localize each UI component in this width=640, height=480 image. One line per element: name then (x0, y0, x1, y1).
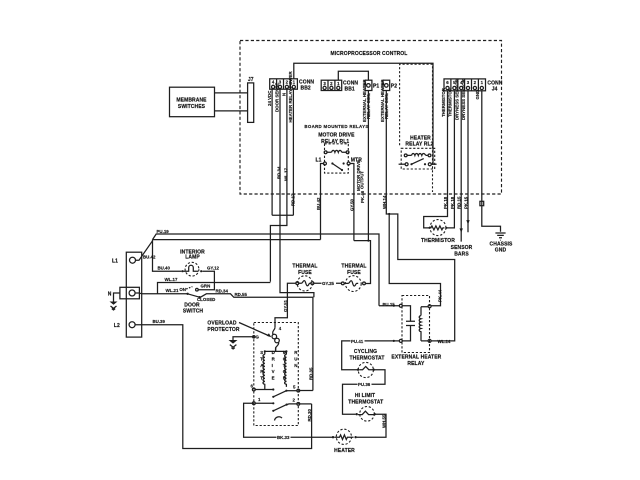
svg-text:RELAY COIL: RELAY COIL (384, 93, 389, 119)
wire door switch to motor run feed (RD.34 / RD.55) (200, 294, 313, 391)
svg-text:RD.55: RD.55 (235, 292, 248, 297)
motor winding motor-run (285, 351, 287, 387)
connector CONN BB2 (270, 79, 315, 92)
svg-text:PK.18: PK.18 (443, 196, 448, 209)
svg-text:DRYNESS SENSOR: DRYNESS SENSOR (461, 78, 466, 120)
label G (253, 336, 255, 338)
motor switch arm lower (272, 410, 274, 412)
ext relay bottom-left terminal (399, 339, 402, 342)
wire fuse1 to fuse2 (GY.25) (314, 282, 342, 284)
interior lamp (181, 262, 202, 276)
wire PU.41 cycling thermostat to ext relay (342, 341, 400, 370)
svg-text:CONN: CONN (487, 80, 502, 86)
hi limit thermostat (356, 407, 376, 422)
svg-text:L1: L1 (112, 259, 118, 265)
svg-text:MICROPROCESSOR CONTROL: MICROPROCESSOR CONTROL (331, 51, 408, 57)
svg-text:WL.17: WL.17 (284, 168, 289, 181)
terminal 5 row (286, 390, 297, 392)
centrifugal switch arc (275, 417, 283, 421)
wire hi-limit to heater (WH.55) (357, 414, 386, 437)
heater (332, 429, 357, 454)
overload protector arrow (239, 323, 270, 337)
svg-text:PK.44: PK.44 (437, 289, 442, 302)
membrane switches box (170, 87, 215, 117)
svg-text:DRYNESS SENSOR: DRYNESS SENSOR (455, 78, 460, 120)
wire J4 pin3 sensor bar right (467, 91, 469, 232)
wire BB2 pin1 to heater relay RL2 contact (294, 63, 433, 164)
ext relay bottom-right terminal (428, 339, 431, 342)
relay RL2 (399, 148, 437, 169)
svg-text:RD.35: RD.35 (309, 367, 314, 380)
svg-text:SWITCHES: SWITCHES (178, 104, 206, 110)
ext relay top-right terminal (428, 305, 431, 308)
cycling thermostat (357, 362, 375, 377)
thermistor (421, 220, 455, 244)
svg-text:OUTPUT: OUTPUT (359, 171, 364, 189)
svg-text:GY.50: GY.50 (349, 198, 354, 211)
ext relay contact plates (402, 306, 415, 341)
wire BB2 pin2 N down (WL.17 tap) (270, 89, 287, 282)
motor terminal 6 row (252, 388, 255, 391)
svg-text:BU.39: BU.39 (153, 319, 166, 324)
svg-text:GY.51: GY.51 (283, 299, 288, 312)
svg-text:DOOR SENSE: DOOR SENSE (274, 83, 279, 112)
svg-text:WL.17: WL.17 (165, 277, 178, 282)
svg-text:BU.42: BU.42 (316, 197, 321, 210)
svg-text:PK.18: PK.18 (450, 196, 455, 209)
motor winding start-drive (263, 351, 265, 389)
svg-text:LAMP: LAMP (185, 255, 200, 261)
wire membrane to J7 lower (215, 110, 248, 112)
wire BB2 pin3 door sense down (RD.34) (280, 89, 314, 297)
wire lamp to door switch GRN contact (GY.12) (198, 271, 214, 290)
bus joining pins (272, 214, 293, 216)
motor switch arm upper (272, 396, 274, 398)
motor terminal 1 row (252, 402, 255, 405)
wire BB2 pin1 heater relay power down to bus (292, 89, 294, 215)
wire BK.33 motor to heater (244, 403, 332, 437)
svg-text:RD.34: RD.34 (277, 166, 282, 179)
svg-text:RD.34: RD.34 (216, 289, 229, 294)
wire BB2 pin4 24VDC down to bus (271, 89, 273, 215)
svg-text:MEMBRANE: MEMBRANE (176, 98, 207, 104)
connector J7 (248, 77, 254, 123)
terminal 2 row (287, 403, 297, 406)
wire J4 pin5 to thermistor right (446, 91, 454, 228)
svg-text:PK.15: PK.15 (463, 196, 468, 209)
svg-text:BARS: BARS (454, 252, 469, 258)
svg-text:DOOR: DOOR (184, 302, 200, 308)
sensor bar right arrow (466, 220, 469, 224)
wire J4 pin1 to chassis ground (482, 91, 501, 232)
svg-text:PU.15: PU.15 (383, 302, 396, 307)
wire RL1 L1 contact down (BU.42) (321, 164, 324, 240)
wire L1 node down to lamp (BU.40) (153, 240, 182, 272)
thermal fuse 1 (296, 276, 314, 291)
terminal P1 (365, 80, 379, 90)
svg-text:N: N (108, 291, 112, 297)
svg-text:HI LIMIT: HI LIMIT (355, 393, 375, 399)
svg-text:PU.19: PU.19 (157, 229, 170, 234)
microprocessor control dashed box (240, 41, 502, 195)
wire P2 down to external heater relay (WH.14 / WL.14) (386, 91, 454, 341)
svg-text:FUSE: FUSE (347, 270, 361, 276)
connector CONN BB1 (321, 80, 358, 92)
thermal fuse 2 (341, 276, 365, 292)
connector CONN J4 (444, 79, 503, 93)
svg-text:P2: P2 (391, 84, 397, 90)
svg-text:THERMOSTAT: THERMOSTAT (348, 399, 383, 405)
motor winding bus (265, 350, 287, 352)
terminal P2 (383, 80, 397, 90)
motor overload protector (272, 327, 279, 351)
svg-text:THERMISTOR: THERMISTOR (448, 87, 453, 117)
svg-text:THERMAL: THERMAL (341, 264, 366, 270)
inner dashed enclosure (400, 64, 433, 192)
svg-text:HEATER RELAY POWER: HEATER RELAY POWER (288, 71, 293, 123)
svg-text:J4: J4 (492, 87, 498, 93)
wire cycling to hi-limit (PU.36) (343, 370, 386, 415)
svg-text:PROTECTOR: PROTECTOR (207, 327, 239, 333)
svg-text:N: N (281, 93, 286, 96)
svg-text:WL.21: WL.21 (166, 288, 179, 293)
svg-text:RD.15: RD.15 (457, 196, 462, 209)
svg-text:L1: L1 (316, 158, 322, 164)
svg-text:SENSOR: SENSOR (451, 245, 473, 251)
svg-text:L2: L2 (114, 323, 120, 329)
svg-text:J7: J7 (248, 77, 254, 83)
svg-text:RELAY: RELAY (407, 361, 425, 367)
wire L1 to PU.19 / BU.42 node (136, 241, 153, 260)
wire BU.42 horizontal to RL1 (153, 239, 321, 241)
svg-text:PK.46: PK.46 (360, 190, 365, 203)
svg-text:P1: P1 (373, 84, 379, 90)
svg-text:THERMISTOR: THERMISTOR (421, 238, 455, 244)
wire PU.19 horizontal to external heater relay (153, 234, 380, 306)
ext relay top-left terminal (399, 304, 402, 307)
svg-text:WL.14: WL.14 (438, 339, 451, 344)
wire membrane to J7 upper (215, 92, 248, 94)
svg-text:ON: ON (179, 287, 186, 292)
svg-text:WH.14: WH.14 (382, 195, 387, 209)
motor ground (229, 337, 254, 349)
wire fuse1 left to overload (GY.51) (275, 283, 296, 327)
svg-text:GND: GND (475, 90, 480, 100)
svg-text:PU.41: PU.41 (351, 339, 364, 344)
relay RL1 (323, 144, 350, 173)
wire J4 pin6 to thermistor left (424, 91, 448, 228)
wire heater relay RL2 output to ext relay coil (PK.44) (389, 214, 440, 306)
svg-text:RELAY COIL: RELAY COIL (366, 93, 371, 119)
sensor bar left arrow (460, 228, 463, 232)
svg-text:BB2: BB2 (301, 86, 311, 92)
svg-text:THERMISTOR: THERMISTOR (441, 87, 446, 117)
svg-text:SWITCH: SWITCH (183, 309, 204, 315)
svg-text:GY.25: GY.25 (322, 281, 335, 286)
svg-text:CYCLING: CYCLING (354, 349, 377, 355)
wire PU.15 lead (379, 305, 399, 307)
svg-text:OVERLOAD: OVERLOAD (207, 321, 236, 327)
svg-text:FUSE: FUSE (298, 270, 312, 276)
svg-text:BU.40: BU.40 (158, 266, 171, 271)
svg-text:WH.55: WH.55 (381, 414, 386, 428)
svg-text:HEATER: HEATER (334, 448, 355, 454)
svg-text:RD.17: RD.17 (291, 193, 296, 206)
svg-text:G: G (256, 335, 260, 340)
svg-text:CLOSED: CLOSED (197, 297, 215, 302)
svg-text:PU.36: PU.36 (358, 382, 371, 387)
svg-text:HEATER: HEATER (410, 136, 431, 142)
ground at N terminal (110, 293, 120, 310)
svg-text:BB1: BB1 (345, 87, 355, 93)
svg-text:GRN: GRN (201, 283, 211, 288)
splice on ground wire (480, 201, 484, 205)
wire WL.17 from N line to thermal fuse branch (158, 283, 271, 294)
svg-text:THERMAL: THERMAL (292, 264, 317, 270)
svg-text:24 VDC: 24 VDC (267, 90, 272, 106)
wire P1 down (PK.46) (367, 91, 369, 241)
ext relay coil (419, 307, 428, 341)
svg-text:GND: GND (495, 248, 507, 254)
terminal block (120, 252, 142, 337)
wire N to door switch (WL.21) (135, 292, 187, 295)
wire BB1 pin1 to P1 (338, 71, 368, 80)
motor dashed box (254, 323, 298, 426)
svg-text:THERMOSTAT: THERMOSTAT (350, 356, 385, 362)
svg-text:BK.33: BK.33 (277, 435, 290, 440)
svg-text:MOTOR DRIVE: MOTOR DRIVE (318, 133, 355, 139)
svg-text:BU.42: BU.42 (143, 255, 156, 260)
svg-text:RELAY RL2: RELAY RL2 (405, 142, 433, 148)
svg-text:BOARD MOUNTED RELAYS: BOARD MOUNTED RELAYS (304, 124, 368, 129)
svg-text:EXTERNAL HEATER: EXTERNAL HEATER (391, 355, 441, 361)
svg-text:RD.30: RD.30 (307, 408, 312, 421)
chassis ground symbol (490, 233, 513, 254)
wire J4 pin4 sensor bar left (460, 91, 462, 242)
wire L2 to bottom (BU.39) (135, 325, 312, 449)
external heater relay dashed box (402, 296, 430, 353)
svg-text:GY.12: GY.12 (207, 266, 220, 271)
wire GY.50 to thermal fuse 2 (354, 241, 371, 284)
door switch (179, 283, 215, 314)
wire RL1 MTR contact down (GY.50) (350, 164, 354, 241)
